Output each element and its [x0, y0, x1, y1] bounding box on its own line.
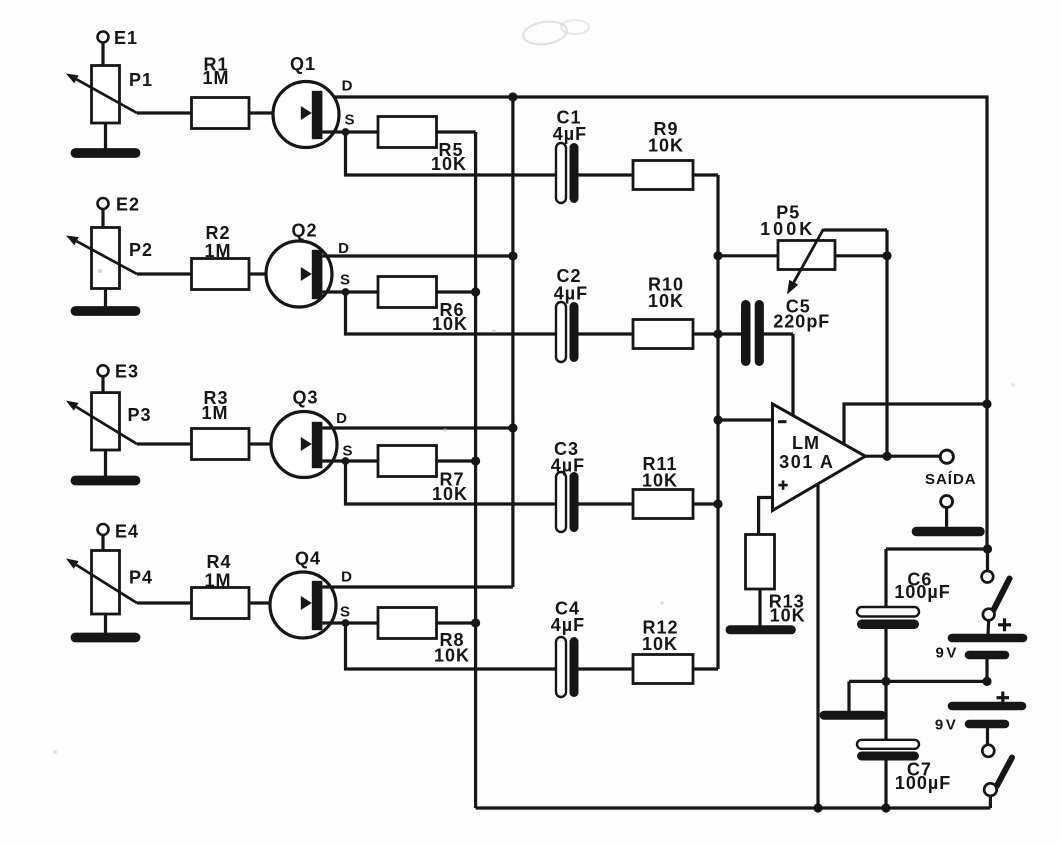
- svg-text:10K: 10K: [432, 484, 468, 504]
- svg-text:D: D: [342, 78, 354, 95]
- svg-text:100µF: 100µF: [895, 773, 951, 793]
- svg-text:S: S: [344, 112, 355, 129]
- svg-text:100µF: 100µF: [894, 582, 950, 602]
- svg-text:P3: P3: [127, 405, 151, 425]
- svg-text:Q4: Q4: [295, 549, 321, 569]
- svg-text:220pF: 220pF: [773, 312, 830, 332]
- svg-text:E2: E2: [116, 195, 140, 215]
- svg-text:D: D: [338, 240, 350, 257]
- svg-text:Q2: Q2: [291, 221, 317, 241]
- svg-text:1M: 1M: [202, 68, 229, 88]
- svg-text:SAÍDA: SAÍDA: [925, 471, 977, 488]
- svg-text:E1: E1: [114, 28, 138, 48]
- svg-text:S: S: [340, 604, 351, 621]
- svg-text:P1: P1: [129, 70, 153, 90]
- svg-text:10K: 10K: [770, 605, 806, 625]
- svg-text:R4: R4: [206, 552, 231, 572]
- svg-text:S: S: [342, 443, 353, 460]
- svg-text:10K: 10K: [642, 634, 678, 654]
- svg-text:P2: P2: [129, 240, 153, 260]
- svg-text:10K: 10K: [648, 291, 684, 311]
- svg-text:9V: 9V: [935, 717, 958, 734]
- svg-text:S: S: [340, 272, 351, 289]
- svg-text:1M: 1M: [201, 403, 228, 423]
- svg-text:Q3: Q3: [292, 388, 318, 408]
- svg-text:LM: LM: [792, 433, 820, 453]
- svg-text:D: D: [341, 569, 353, 586]
- svg-text:4µF: 4µF: [551, 456, 585, 476]
- svg-text:D: D: [336, 410, 348, 427]
- svg-text:10K: 10K: [642, 471, 678, 491]
- svg-text:301 A: 301 A: [779, 452, 834, 472]
- svg-text:R2: R2: [205, 223, 230, 243]
- svg-text:P4: P4: [129, 568, 153, 588]
- svg-text:100K: 100K: [760, 219, 815, 239]
- svg-text:E3: E3: [115, 362, 139, 382]
- svg-text:1M: 1M: [204, 241, 231, 261]
- svg-text:4µF: 4µF: [553, 124, 587, 144]
- svg-text:10K: 10K: [432, 314, 468, 334]
- svg-text:4µF: 4µF: [554, 284, 588, 304]
- svg-text:10K: 10K: [648, 136, 684, 156]
- svg-text:4µF: 4µF: [551, 615, 585, 635]
- svg-text:9V: 9V: [936, 645, 959, 662]
- svg-text:E4: E4: [115, 522, 139, 542]
- svg-text:Q1: Q1: [290, 54, 316, 74]
- svg-text:10K: 10K: [434, 646, 470, 666]
- svg-text:1M: 1M: [204, 571, 231, 591]
- svg-text:10K: 10K: [431, 154, 467, 174]
